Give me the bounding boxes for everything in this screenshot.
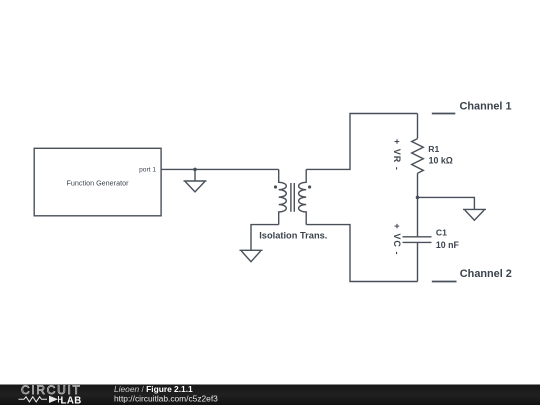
svg-text:C1: C1 (436, 228, 447, 238)
junction dot mid node (416, 196, 420, 200)
transformer T1 primary winding (279, 169, 287, 224)
function generator V1 box (34, 148, 161, 216)
svg-text:LAB: LAB (61, 395, 82, 405)
resistor R1 zigzag (412, 139, 424, 174)
transformer T1 secondary winding (299, 169, 307, 224)
ground GND1 symbol (184, 181, 207, 192)
svg-text:10 nF: 10 nF (436, 240, 460, 250)
svg-text:port 1: port 1 (139, 167, 156, 174)
transformer primary phase dot (274, 185, 277, 188)
svg-text:Channel 1: Channel 1 (460, 101, 512, 113)
svg-text:http://circuitlab.com/c5z2ef3: http://circuitlab.com/c5z2ef3 (114, 394, 218, 404)
wire secondary top to node Channel 1 (306, 114, 417, 170)
capacitor C1 plates (403, 237, 432, 243)
transformer secondary phase dot (308, 185, 311, 188)
junction dot at GND1 (193, 168, 197, 172)
wire secondary bottom to node Channel 2 (306, 225, 417, 282)
wire top to resistor R1 (417, 114, 419, 139)
svg-text:Function Generator: Function Generator (67, 179, 130, 188)
wire resistor to capacitor (417, 173, 419, 236)
svg-text:Channel 2: Channel 2 (460, 268, 512, 280)
svg-text:Lieoen / Figure 2.1.1: Lieoen / Figure 2.1.1 (114, 384, 193, 394)
node stub Channel 1 (432, 113, 456, 115)
svg-text:Isolation Trans.: Isolation Trans. (259, 230, 327, 240)
svg-text:R1: R1 (428, 144, 439, 154)
footer bar (0, 385, 540, 405)
wire from port 1 to transformer primary (161, 168, 279, 170)
wire capacitor to bottom (417, 242, 419, 281)
logo diode triangle (49, 396, 58, 403)
svg-text:+ VC -: + VC - (392, 224, 402, 256)
ground GND1 stem (194, 169, 196, 181)
node stub Channel 2 (432, 281, 457, 283)
ground GND3 symbol (463, 209, 486, 220)
svg-text:+ VR -: + VR - (392, 139, 402, 171)
ground GND2 symbol (240, 250, 263, 261)
transformer T1 core (291, 183, 294, 212)
wire primary bottom to ground (251, 225, 279, 251)
svg-text:10 kΩ: 10 kΩ (429, 156, 453, 166)
logo resistor-diode squiggle (19, 396, 63, 403)
wire mid node to ground GND3 (418, 197, 475, 209)
